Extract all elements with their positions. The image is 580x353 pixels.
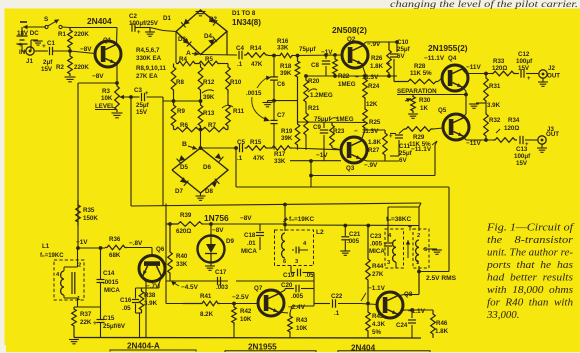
svg-text:R38: R38 (144, 292, 156, 299)
svg-text:2.5V RMS: 2.5V RMS (426, 275, 457, 282)
svg-text:R20: R20 (308, 78, 320, 85)
svg-text:.1: .1 (334, 310, 340, 317)
svg-text:C17: C17 (215, 269, 227, 276)
svg-text:MICA: MICA (104, 287, 120, 294)
svg-text:4.3K: 4.3K (372, 321, 386, 328)
wire C3 right (147, 96, 164, 98)
svg-text:220K: 220K (74, 31, 89, 38)
svg-text:C16: C16 (120, 297, 132, 304)
wire right vertical to -2.4V node (313, 273, 315, 307)
svg-text:120Ω: 120Ω (492, 65, 507, 72)
svg-text:R17: R17 (274, 151, 286, 158)
wire R6R7 mid down to bridge 2 (199, 128, 203, 132)
diode D1 (181, 18, 190, 27)
svg-text:R19: R19 (281, 128, 293, 135)
svg-text:25μf/6V: 25μf/6V (103, 323, 126, 330)
svg-text:620Ω: 620Ω (176, 228, 191, 235)
svg-text:6V: 6V (399, 157, 407, 164)
svg-text:27K EA: 27K EA (136, 73, 158, 80)
svg-text:330K EA: 330K EA (136, 55, 162, 62)
svg-text:8.2K: 8.2K (200, 311, 214, 318)
svg-text:33,000.: 33,000. (486, 309, 519, 321)
resistor R8 (171, 64, 176, 95)
svg-text:−1.1V: −1.1V (368, 285, 386, 292)
svg-text:R40: R40 (176, 253, 188, 260)
wire bridge right vertex down (226, 31, 228, 55)
svg-text:C15: C15 (103, 315, 115, 322)
svg-text:C22: C22 (331, 293, 343, 300)
ground at bridge top (196, 11, 206, 13)
svg-text:.01: .01 (247, 240, 256, 247)
svg-text:1.2MEG: 1.2MEG (310, 92, 333, 99)
svg-text:MICA: MICA (369, 248, 385, 255)
svg-text:1MEG: 1MEG (338, 81, 356, 88)
svg-text:R1: R1 (58, 31, 66, 38)
svg-text:.005: .005 (370, 241, 383, 248)
svg-text:11.3V: 11.3V (362, 128, 379, 135)
svg-text:R28: R28 (414, 63, 426, 70)
wire down from C3 node (129, 95, 133, 99)
battery plus sign (19, 42, 25, 44)
Q7 lower lead to R43 (278, 312, 288, 313)
chassis ground at battery (30, 40, 32, 51)
wire C11 to R29 (396, 133, 399, 135)
svg-text:D1 TO 8: D1 TO 8 (232, 10, 256, 17)
jack J3 OUT (538, 136, 546, 144)
ground below R3 (112, 112, 123, 114)
svg-text:.005: .005 (347, 238, 360, 245)
wire base to Q1 (70, 51, 95, 54)
ground below J2 (542, 78, 544, 82)
feedback line B (236, 186, 449, 188)
svg-text:−.8V: −.8V (129, 240, 143, 247)
svg-text:R4,5,6,7: R4,5,6,7 (136, 47, 160, 54)
svg-text:25μf: 25μf (136, 102, 150, 109)
wire bridge bottom to C4 (201, 54, 238, 57)
wire Q3 emitter rail to left (289, 148, 291, 161)
long wire down left side (77, 83, 79, 248)
svg-text:47K: 47K (253, 155, 265, 162)
Q2 emitter wire -.9V rail (362, 42, 366, 46)
line C drop to transformer T (419, 203, 421, 207)
svg-text:B: B (182, 141, 187, 148)
Q4 emitter to output rail (462, 69, 466, 74)
svg-text:R27: R27 (368, 147, 380, 154)
node base Q1 (68, 49, 72, 53)
svg-text:R12: R12 (203, 79, 215, 86)
diode D2 (209, 17, 218, 26)
battery minus sign (20, 21, 27, 23)
svg-text:D5: D5 (180, 164, 188, 171)
resistor R29 11K 5% horizontal (404, 127, 433, 132)
svg-text:+: + (389, 134, 393, 140)
svg-text:R13: R13 (203, 110, 215, 117)
svg-text:R30: R30 (419, 97, 431, 104)
svg-text:−11.1V: −11.1V (411, 146, 432, 153)
wire R39 column down to -4.5V rail (165, 224, 167, 281)
svg-text:2N404-A: 2N404-A (127, 342, 160, 351)
svg-text:11K 5%: 11K 5% (410, 70, 432, 77)
svg-text:R45: R45 (372, 313, 384, 320)
svg-text:−8V: −8V (240, 215, 252, 222)
svg-text:R24: R24 (368, 83, 380, 90)
svg-text:R41: R41 (200, 293, 212, 300)
wire line C down to L2 (283, 203, 287, 207)
wire J1 to C1 (34, 50, 48, 52)
svg-text:1.8K: 1.8K (370, 63, 384, 70)
svg-text:unit. The author re-: unit. The author re- (487, 247, 573, 259)
svg-text:R44: R44 (372, 263, 384, 270)
svg-text:−4.5V: −4.5V (181, 284, 199, 291)
T core arrow (407, 240, 409, 258)
wire Q3 area down to line A (310, 161, 312, 176)
wire -2.4V to R43 node (292, 305, 314, 307)
wire R39 to C18 -8V rail (203, 223, 285, 225)
svg-text:D6: D6 (203, 164, 211, 171)
svg-text:C11: C11 (399, 143, 411, 150)
svg-text:LEVEL: LEVEL (95, 103, 115, 110)
Q3 collector wire 11.3V (361, 130, 365, 141)
svg-text:39K: 39K (280, 70, 292, 77)
svg-text:+: + (42, 43, 46, 50)
diode D4 (208, 36, 217, 45)
svg-text:.003: .003 (216, 284, 229, 291)
svg-text:47K: 47K (251, 61, 263, 68)
svg-text:C12: C12 (518, 51, 530, 58)
svg-text:10K: 10K (101, 95, 113, 102)
svg-text:.05: .05 (122, 305, 131, 312)
svg-text:IN: IN (19, 49, 26, 56)
svg-text:R33: R33 (493, 58, 505, 65)
ground below R30 (408, 113, 418, 115)
svg-text:15V: 15V (136, 109, 148, 116)
svg-text:OUT: OUT (546, 131, 559, 138)
Q6 right lead to emitter node (159, 278, 161, 284)
svg-text:D8: D8 (205, 188, 213, 195)
svg-text:changing the level of the pilo: changing the level of the pilot carrier. (390, 0, 578, 9)
svg-text:R34: R34 (508, 117, 520, 124)
svg-text:C2: C2 (129, 13, 137, 20)
wire R37 top (74, 306, 101, 308)
diode D8 (211, 179, 220, 188)
svg-text:12K: 12K (366, 101, 378, 108)
L2 coil (282, 233, 285, 258)
svg-text:75μμf: 75μμf (314, 116, 331, 123)
svg-text:39K: 39K (281, 135, 293, 142)
Q6 left lead down to rail (143, 278, 146, 282)
svg-text:R15: R15 (250, 139, 262, 146)
wire Q4 collector to separation pot (462, 87, 466, 91)
svg-text:R43: R43 (296, 317, 308, 324)
svg-text:f₀=19KC: f₀=19KC (40, 253, 64, 259)
svg-text:with 18,000 ohms: with 18,000 ohms (487, 284, 573, 296)
wire R14 to R16 (268, 55, 279, 57)
svg-text:15V: 15V (516, 160, 528, 167)
svg-text:Q6: Q6 (156, 246, 165, 253)
wire line C junction down to R39 (165, 204, 167, 225)
junction -1V (76, 246, 80, 250)
svg-text:−11.1V: −11.1V (424, 55, 445, 62)
svg-text:R14: R14 (250, 45, 262, 52)
feedback line C (131, 203, 421, 206)
svg-text:D1: D1 (163, 15, 171, 22)
ground below R37 (69, 339, 79, 341)
wire Q1 collector to top rail (116, 28, 119, 45)
svg-text:R2: R2 (56, 64, 64, 71)
feedback line A 19KC (311, 175, 435, 177)
svg-text:R3: R3 (102, 88, 110, 95)
svg-text:27K: 27K (372, 271, 384, 278)
svg-text:OUT: OUT (547, 73, 560, 80)
wire pin1 bottom (418, 266, 420, 295)
wire R15 to R17 (268, 147, 270, 149)
feedback line B drop right (448, 187, 450, 272)
ground below C21 (340, 250, 350, 252)
wire R25 bottom to 1MEG rail (364, 123, 366, 131)
L1 tuning capacitor (71, 272, 73, 294)
wire lower row of divider (163, 100, 201, 102)
svg-text:68K: 68K (109, 252, 121, 259)
wire Q5 emitter up (462, 114, 466, 118)
svg-text:150K: 150K (83, 215, 98, 222)
svg-text:33K: 33K (274, 158, 286, 165)
svg-text:for R40 than with: for R40 than with (487, 297, 573, 309)
wire bridge left vertex down to R4 row (175, 32, 177, 64)
svg-text:+: + (145, 91, 149, 97)
diode D3 (183, 38, 192, 47)
svg-text:−: − (355, 74, 359, 81)
svg-text:+: + (93, 320, 97, 327)
svg-text:C7: C7 (277, 112, 285, 119)
ground below bridge 2 (200, 193, 202, 196)
capacitor C6 .0015 (273, 56, 275, 77)
Q5 emitter feedback drop to 38KC line (435, 141, 437, 145)
ground below J3 (541, 144, 543, 148)
resistor R10 (226, 64, 231, 95)
svg-text:C23: C23 (370, 233, 382, 240)
svg-text:R26: R26 (371, 55, 383, 62)
resistor R11 (226, 101, 231, 130)
svg-text:2: 2 (78, 263, 81, 269)
svg-text:1N756: 1N756 (204, 213, 229, 223)
resistor R9 (171, 101, 176, 130)
svg-text:C1: C1 (47, 40, 55, 47)
svg-text:R36: R36 (109, 236, 121, 243)
diode D6 (215, 153, 224, 162)
svg-text:−: − (354, 128, 358, 135)
svg-text:−8V: −8V (212, 227, 224, 234)
wire wiper to C3 (128, 96, 140, 98)
svg-text:100μf: 100μf (516, 58, 533, 65)
svg-text:1.8K: 1.8K (368, 139, 382, 146)
junction wire at y=100.6 (268, 100, 298, 102)
wire node B to C5 (201, 147, 239, 149)
svg-text:R22: R22 (338, 73, 350, 80)
Q3 emitter rail -.9V (290, 160, 341, 162)
Q5 lower line to -11V rail (463, 136, 466, 140)
svg-text:Q3: Q3 (346, 165, 355, 172)
-8V rail extension to transformer (285, 224, 420, 227)
wire pin5 to ground (423, 248, 437, 250)
transformer T boxes (385, 229, 404, 268)
Q2 collector wire -11.3V (362, 65, 366, 77)
feedback wire 1MEG row (298, 121, 366, 124)
svg-text:2N508(2): 2N508(2) (332, 25, 367, 35)
svg-text:C13: C13 (516, 146, 528, 153)
resistor R13 (198, 101, 203, 130)
Q8 emitter wire -1.1V (397, 310, 404, 314)
wire to Q8 base (361, 304, 377, 305)
svg-text:−.9V: −.9V (364, 162, 378, 169)
bottom rail of circuit (74, 337, 421, 340)
svg-text:R37: R37 (80, 311, 92, 318)
svg-text:R35: R35 (83, 207, 95, 214)
svg-text:had better results: had better results (487, 272, 573, 284)
svg-text:120Ω: 120Ω (504, 125, 519, 132)
svg-text:R21: R21 (308, 105, 320, 112)
svg-text:−11V: −11V (466, 140, 481, 147)
diode bridge D5-D8 outline (172, 148, 228, 193)
svg-text:25μf: 25μf (397, 46, 411, 53)
svg-text:R8: R8 (176, 79, 184, 86)
svg-text:R18: R18 (280, 63, 292, 70)
diode D5 (177, 155, 186, 164)
resistor R17 33K (270, 146, 292, 151)
svg-text:C21: C21 (349, 231, 361, 238)
svg-text:15V: 15V (41, 66, 53, 73)
wire L2 pin3 down to C19 (290, 266, 292, 273)
svg-text:C18: C18 (244, 232, 256, 239)
wire top rail to bridge (150, 28, 163, 31)
svg-text:−11V: −11V (466, 64, 481, 71)
svg-text:R42: R42 (240, 308, 252, 315)
svg-text:1.8K: 1.8K (435, 328, 449, 335)
wire T pin2 up (418, 207, 420, 231)
svg-text:C6: C6 (277, 81, 285, 88)
svg-text:T: T (408, 226, 412, 233)
svg-text:MICA: MICA (241, 248, 257, 255)
svg-text:C24: C24 (396, 322, 408, 329)
svg-text:f₀=19KC: f₀=19KC (289, 216, 314, 223)
svg-text:ports that he has: ports that he has (486, 259, 573, 271)
svg-text:2N1955(2): 2N1955(2) (428, 43, 468, 53)
transistor Q3 (341, 137, 367, 163)
wire to Q3 base (292, 148, 341, 150)
svg-text:J1: J1 (26, 58, 33, 65)
wire C1 to base node (53, 50, 71, 52)
svg-text:10K: 10K (240, 316, 252, 323)
svg-text:75μμf: 75μμf (299, 46, 316, 53)
svg-text:.0015: .0015 (246, 90, 262, 97)
ground stub at R31 bottom (476, 102, 486, 104)
wire -1V to R36 (78, 247, 105, 249)
svg-text:R10: R10 (230, 79, 242, 86)
wire R29 to Q5 base (433, 128, 443, 129)
wire junction to bridge bottom rail (162, 97, 164, 101)
svg-text:.1: .1 (237, 155, 243, 162)
svg-text:22K: 22K (80, 319, 92, 326)
diode D7 (180, 177, 189, 186)
wire L1 bottom down (77, 298, 79, 307)
ground for C2 (135, 27, 150, 29)
svg-text:R32: R32 (489, 117, 501, 124)
svg-text:−8V: −8V (92, 73, 104, 80)
battery cell stack (21, 27, 23, 36)
svg-text:−.7V: −.7V (146, 283, 160, 290)
svg-text:100μf/25V: 100μf/25V (129, 20, 159, 27)
transformer L2 box (275, 230, 314, 266)
T primary coil (393, 240, 396, 262)
resistor R12 (198, 64, 203, 95)
wire -4.5V to R41 row (165, 281, 167, 303)
L2 internal capacitor (295, 247, 297, 254)
svg-text:1MEG: 1MEG (336, 116, 354, 123)
svg-text:+: + (387, 62, 391, 68)
wire R41 to Q7 base (220, 303, 258, 305)
svg-text:.0015: .0015 (103, 279, 119, 286)
svg-text:1K: 1K (420, 105, 428, 112)
svg-text:+: + (18, 40, 23, 49)
emitter node wire (136, 287, 160, 289)
svg-text:6V: 6V (397, 53, 405, 60)
svg-text:−2.5V: −2.5V (232, 294, 250, 301)
ground below R2 (65, 76, 76, 78)
svg-text:R9: R9 (177, 108, 185, 115)
wire pin3 down (395, 262, 397, 268)
Q8 collector up to T (397, 295, 404, 297)
svg-text:R46: R46 (436, 320, 448, 327)
wire Q1 emitter down (116, 64, 118, 84)
wire battery to switch (23, 26, 46, 28)
svg-text:+: + (527, 76, 531, 82)
svg-text:D4: D4 (204, 33, 212, 40)
svg-text:3.9K: 3.9K (487, 102, 501, 109)
zener diode D9 1N756 (209, 222, 213, 226)
svg-text:2N404: 2N404 (87, 16, 112, 26)
svg-text:D2: D2 (209, 16, 217, 23)
svg-text:S: S (44, 16, 49, 23)
svg-text:R8,9,10,11: R8,9,10,11 (136, 65, 166, 72)
svg-text:2N1955: 2N1955 (248, 343, 277, 352)
svg-text:R29: R29 (413, 134, 425, 141)
svg-text:39K: 39K (203, 94, 215, 101)
svg-text:R31: R31 (489, 83, 501, 90)
transistor Q4 (442, 65, 468, 91)
svg-text:.1: .1 (237, 61, 243, 68)
svg-text:18V DC: 18V DC (17, 30, 39, 37)
svg-text:10K: 10K (296, 325, 308, 332)
svg-text:f₀=38KC: f₀=38KC (386, 216, 411, 223)
svg-text:3.9K: 3.9K (144, 300, 158, 307)
joined emitter branch to rail (136, 312, 142, 314)
svg-text:+: + (137, 30, 141, 36)
ground below D9 (210, 263, 212, 267)
svg-text:−1V: −1V (76, 239, 88, 246)
diode bridge D1-D4 outline (176, 10, 227, 55)
svg-text:R39: R39 (180, 212, 192, 219)
svg-text:100μf: 100μf (514, 153, 531, 160)
svg-text:2μf: 2μf (43, 59, 53, 66)
wire R16 to Q2 base (293, 54, 342, 57)
T secondary coil (416, 240, 419, 262)
svg-text:L1: L1 (42, 243, 50, 250)
svg-text:C14: C14 (103, 270, 115, 277)
svg-text:D7: D7 (175, 188, 183, 195)
svg-text:220K: 220K (74, 64, 89, 71)
svg-text:C8: C8 (311, 62, 319, 69)
svg-text:the 8-transistor: the 8-transistor (487, 234, 574, 246)
svg-text:.005: .005 (291, 293, 304, 300)
